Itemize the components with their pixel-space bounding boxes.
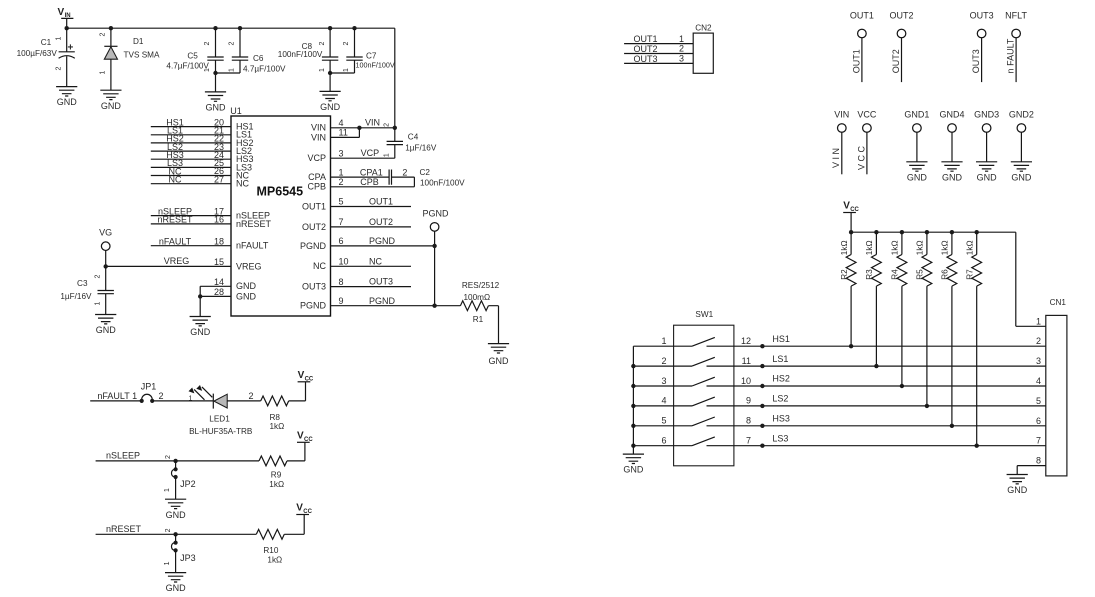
switch SW1 pole 3 bbox=[674, 377, 734, 386]
svg-text:OUT3: OUT3 bbox=[369, 277, 393, 287]
svg-text:V C C: V C C bbox=[856, 146, 866, 171]
wire C1 leads bbox=[66, 28, 68, 86]
svg-text:8: 8 bbox=[1036, 456, 1041, 466]
junction LS2 bbox=[760, 404, 764, 408]
svg-text:OUT3: OUT3 bbox=[302, 282, 326, 292]
svg-text:2: 2 bbox=[229, 41, 236, 45]
test point GND3 bbox=[982, 124, 991, 133]
svg-text:GND1: GND1 bbox=[904, 109, 929, 119]
switch SW1 pole 5 bbox=[674, 417, 734, 426]
capacitor C8 100nF/100V bbox=[322, 57, 338, 60]
svg-text:nFAULT 1: nFAULT 1 bbox=[97, 391, 137, 401]
svg-text:1µF/16V: 1µF/16V bbox=[405, 144, 437, 153]
svg-text:GND3: GND3 bbox=[974, 109, 999, 119]
wire net HS1 pin 20 bbox=[151, 126, 231, 128]
ground GND (C1) bbox=[56, 87, 77, 108]
svg-text:6: 6 bbox=[661, 436, 666, 446]
svg-text:+: + bbox=[68, 43, 74, 54]
svg-text:1µF/16V: 1µF/16V bbox=[60, 292, 92, 301]
svg-text:OUT1: OUT1 bbox=[850, 10, 874, 20]
wire R8 to VCC bbox=[289, 382, 306, 401]
svg-text:VCP: VCP bbox=[307, 153, 326, 163]
svg-text:VREG: VREG bbox=[164, 256, 190, 266]
svg-text:14: 14 bbox=[214, 277, 224, 287]
junction VCC bus R3 bbox=[874, 230, 878, 234]
svg-text:1: 1 bbox=[56, 36, 63, 40]
svg-text:PGND: PGND bbox=[300, 301, 327, 311]
svg-text:NFLT: NFLT bbox=[1005, 10, 1027, 20]
wire net OUT2 to CN2 pin 2 bbox=[624, 53, 693, 55]
svg-text:NC: NC bbox=[236, 179, 249, 189]
svg-text:100nF/100V: 100nF/100V bbox=[356, 61, 395, 70]
wire net LS3 SW1 to CN1 bbox=[734, 445, 1046, 447]
svg-text:PGND: PGND bbox=[369, 236, 396, 246]
svg-text:VCC: VCC bbox=[857, 109, 877, 119]
svg-text:MP6545: MP6545 bbox=[257, 185, 304, 199]
wire VCC bus to CN1 pin 1 bbox=[851, 232, 1046, 326]
svg-text:2: 2 bbox=[159, 391, 164, 401]
junction LS1 bbox=[760, 364, 764, 368]
junction HS1 bbox=[760, 344, 764, 348]
svg-text:11: 11 bbox=[339, 128, 348, 138]
svg-text:C7: C7 bbox=[366, 51, 377, 60]
svg-text:NC: NC bbox=[169, 175, 182, 185]
svg-text:OUT1: OUT1 bbox=[302, 201, 326, 211]
ground GND (C8) bbox=[320, 91, 341, 112]
svg-text:C6: C6 bbox=[253, 54, 264, 63]
ground GND (CN1) bbox=[1007, 475, 1028, 496]
wire net NC pin 26 bbox=[151, 175, 231, 177]
node VIN junction C1 bbox=[65, 26, 69, 30]
svg-text:1: 1 bbox=[383, 153, 390, 157]
svg-text:nRESET: nRESET bbox=[236, 219, 272, 229]
svg-text:NC: NC bbox=[369, 256, 382, 266]
power VCC (R10) bbox=[296, 503, 312, 516]
svg-text:GND: GND bbox=[1007, 485, 1028, 495]
connector CN1 bbox=[1046, 298, 1067, 476]
svg-text:12: 12 bbox=[741, 336, 751, 346]
test point OUT1 bbox=[858, 29, 867, 38]
capacitor C2 100nF/100V bbox=[389, 170, 391, 185]
switch SW1 pole 6 bbox=[674, 437, 734, 446]
test point GND4 bbox=[948, 124, 957, 133]
power VCC (R8) bbox=[298, 370, 314, 383]
svg-text:4: 4 bbox=[339, 118, 344, 128]
ground GND (GND4) bbox=[941, 162, 962, 183]
svg-text:5: 5 bbox=[661, 416, 666, 426]
svg-text:SW1: SW1 bbox=[695, 310, 713, 319]
svg-text:R5: R5 bbox=[916, 269, 925, 280]
svg-text:7: 7 bbox=[746, 436, 751, 446]
svg-text:GND: GND bbox=[166, 583, 187, 593]
svg-text:OUT1: OUT1 bbox=[369, 197, 393, 207]
jumper JP1 bbox=[140, 382, 157, 403]
U1 right side pin names bbox=[300, 123, 327, 311]
svg-text:16: 16 bbox=[214, 215, 224, 225]
wire test point OUT3 bbox=[981, 38, 983, 82]
svg-text:JP2: JP2 bbox=[180, 479, 196, 489]
capacitor C3 1uF/16V bbox=[98, 291, 114, 294]
wire net VCP pin 3 bbox=[331, 157, 395, 159]
test point VIN bbox=[838, 124, 847, 133]
wire VIN top bus bbox=[67, 28, 395, 128]
svg-text:3: 3 bbox=[679, 54, 684, 64]
svg-text:LED1: LED1 bbox=[209, 415, 230, 424]
junction R7 row bbox=[975, 444, 979, 448]
svg-text:GND: GND bbox=[96, 325, 117, 335]
svg-text:RES/2512: RES/2512 bbox=[462, 281, 500, 290]
svg-text:8: 8 bbox=[339, 277, 344, 287]
wire GND pins 14/28 bbox=[200, 286, 231, 316]
junction R2 row bbox=[849, 344, 853, 348]
svg-text:n FAULT: n FAULT bbox=[1006, 38, 1016, 73]
resistor R1 100mOhm RES/2512 bbox=[460, 301, 488, 311]
svg-text:V: V bbox=[843, 201, 850, 212]
resistor R6 1kOhm bbox=[947, 255, 957, 287]
wire R3 to row bbox=[875, 286, 877, 366]
wire net NC pin 27 bbox=[151, 183, 231, 185]
svg-text:GND: GND bbox=[320, 102, 341, 112]
svg-text:1kΩ: 1kΩ bbox=[941, 240, 950, 255]
svg-text:OUT3: OUT3 bbox=[634, 54, 658, 64]
svg-text:1: 1 bbox=[319, 68, 326, 72]
svg-text:R4: R4 bbox=[891, 269, 900, 280]
svg-text:JP1: JP1 bbox=[141, 382, 157, 392]
svg-text:2: 2 bbox=[1036, 336, 1041, 346]
junction VCC bus R6 bbox=[950, 230, 954, 234]
ground GND (R1) bbox=[488, 344, 509, 367]
junction HS2 bbox=[760, 384, 764, 388]
svg-text:5: 5 bbox=[339, 197, 344, 207]
junction SW1 gnd bus row 3 bbox=[631, 384, 635, 388]
svg-text:1: 1 bbox=[164, 561, 171, 565]
svg-text:3: 3 bbox=[1036, 356, 1041, 366]
junction VCC bus R5 bbox=[925, 230, 929, 234]
junction HS3 bbox=[760, 424, 764, 428]
wire test point GND1 bbox=[916, 132, 918, 162]
svg-text:4.7µF/100V: 4.7µF/100V bbox=[243, 64, 286, 73]
wire net OUT1 to CN2 pin 1 bbox=[624, 43, 693, 45]
svg-text:CN2: CN2 bbox=[695, 24, 712, 33]
svg-text:3: 3 bbox=[661, 376, 666, 386]
svg-text:6: 6 bbox=[339, 236, 344, 246]
svg-text:nRESET: nRESET bbox=[157, 215, 193, 225]
wire net OUT3 to CN2 pin 3 bbox=[624, 62, 693, 64]
svg-text:9: 9 bbox=[339, 296, 344, 306]
wire test point GND4 bbox=[951, 132, 953, 162]
wire net OUT1 pin 5 bbox=[331, 206, 412, 208]
svg-text:2: 2 bbox=[56, 66, 63, 70]
wire test point NFLT bbox=[1015, 38, 1017, 82]
junction VCC bus R4 bbox=[900, 230, 904, 234]
svg-text:OUT3: OUT3 bbox=[970, 10, 994, 20]
wire R4 to row bbox=[901, 286, 903, 386]
svg-text:R8: R8 bbox=[270, 413, 281, 422]
wire R6 to row bbox=[951, 286, 953, 426]
svg-text:GND: GND bbox=[206, 103, 227, 113]
svg-text:GND: GND bbox=[977, 172, 998, 182]
svg-text:OUT2: OUT2 bbox=[302, 222, 326, 232]
svg-text:OUT2: OUT2 bbox=[634, 44, 658, 54]
wire C7 leads bbox=[330, 28, 354, 73]
svg-text:8: 8 bbox=[746, 416, 751, 426]
wire test point GND2 bbox=[1020, 132, 1022, 162]
svg-text:R10: R10 bbox=[263, 546, 278, 555]
wire net VIN pin 11 bbox=[331, 128, 360, 138]
svg-text:nSLEEP: nSLEEP bbox=[106, 451, 140, 461]
svg-text:2: 2 bbox=[165, 528, 172, 532]
node VIN junction C5 bbox=[213, 26, 217, 30]
svg-text:D1: D1 bbox=[133, 37, 144, 46]
wire LED1 to R8 bbox=[227, 400, 261, 402]
svg-text:1kΩ: 1kΩ bbox=[966, 240, 975, 255]
wire R9 to VCC bbox=[287, 442, 305, 461]
junction VREG C3 bbox=[104, 264, 108, 268]
wire net LS3 pin 25 bbox=[151, 166, 231, 168]
svg-text:JP3: JP3 bbox=[180, 553, 196, 563]
test point VG bbox=[101, 242, 110, 251]
ground GND (C3) bbox=[95, 315, 116, 336]
resistor R5 1kOhm bbox=[922, 255, 932, 287]
wire net VIN pin 4 bbox=[331, 127, 395, 129]
svg-text:GND: GND bbox=[101, 101, 122, 111]
junction SW1 gnd bus row 6 bbox=[631, 444, 635, 448]
svg-text:GND: GND bbox=[1011, 172, 1032, 182]
svg-text:2: 2 bbox=[383, 123, 390, 127]
svg-text:2: 2 bbox=[319, 41, 326, 45]
switch SW1 pole 2 bbox=[674, 357, 734, 366]
wire VCC feed bbox=[850, 213, 852, 233]
junction SW1 gnd bus row 5 bbox=[631, 424, 635, 428]
svg-text:2: 2 bbox=[661, 356, 666, 366]
wire C3 leads bbox=[105, 266, 107, 314]
wire net nRESET pin 16 bbox=[151, 223, 231, 225]
connector CN2 bbox=[693, 24, 713, 74]
svg-text:GND: GND bbox=[623, 465, 644, 475]
wire net LS1 pin 21 bbox=[151, 134, 231, 136]
wire VCC to R4 bbox=[901, 232, 903, 254]
svg-text:C5: C5 bbox=[187, 52, 198, 61]
wire net OUT3 pin 8 bbox=[331, 286, 412, 288]
wire CN1 pin 8 to GND bbox=[1017, 466, 1046, 475]
wire R7 to row bbox=[976, 286, 978, 446]
wire net nSLEEP pin 17 bbox=[151, 215, 231, 217]
svg-text:100nF/100V: 100nF/100V bbox=[420, 178, 465, 187]
wire net LS1 SW1 to CN1 bbox=[734, 365, 1046, 367]
svg-text:PGND: PGND bbox=[300, 241, 327, 251]
svg-text:1kΩ: 1kΩ bbox=[891, 240, 900, 255]
capacitor C1 100uF/63V bbox=[17, 38, 75, 58]
wire net PGND pin 6 bbox=[331, 245, 435, 247]
svg-text:1: 1 bbox=[343, 68, 350, 72]
junction VCC bus R7 bbox=[975, 230, 979, 234]
svg-text:GND: GND bbox=[907, 172, 928, 182]
junction GND pins bbox=[198, 294, 202, 298]
ground GND (GND1) bbox=[906, 162, 927, 183]
junction R4 row bbox=[900, 384, 904, 388]
jumper JP2 bbox=[171, 461, 195, 499]
wire PGND test point to PGND net bbox=[434, 231, 436, 306]
svg-text:1: 1 bbox=[204, 68, 211, 72]
node VIN junction C7 bbox=[352, 26, 356, 30]
test point OUT3 bbox=[977, 29, 986, 38]
svg-text:V I N: V I N bbox=[831, 148, 841, 168]
svg-text:GND: GND bbox=[489, 356, 510, 366]
svg-text:7: 7 bbox=[339, 217, 344, 227]
capacitor C6 4.7uF/100V bbox=[232, 57, 248, 60]
svg-text:1: 1 bbox=[94, 301, 101, 305]
wire net LS2 SW1 to CN1 bbox=[734, 405, 1046, 407]
power V_IN terminal bbox=[58, 7, 74, 28]
wire net HS3 SW1 to CN1 bbox=[734, 425, 1046, 427]
wire net nFAULT pin 18 bbox=[151, 245, 231, 247]
wire test point GND3 bbox=[986, 132, 988, 162]
svg-text:NC: NC bbox=[313, 261, 326, 271]
svg-text:1: 1 bbox=[189, 395, 193, 402]
wire net LS2 pin 23 bbox=[151, 150, 231, 152]
svg-text:1kΩ: 1kΩ bbox=[916, 240, 925, 255]
wire C6 leads bbox=[216, 28, 241, 73]
svg-text:2: 2 bbox=[339, 177, 344, 187]
resistor R7 1kOhm bbox=[972, 255, 982, 287]
svg-text:VIN: VIN bbox=[834, 109, 849, 119]
wire VCC to R2 bbox=[850, 232, 852, 254]
svg-text:C4: C4 bbox=[408, 132, 419, 141]
svg-text:100nF/100V: 100nF/100V bbox=[278, 50, 323, 59]
svg-text:GND: GND bbox=[57, 97, 78, 107]
junction VCC bus R2 bbox=[849, 230, 853, 234]
svg-text:18: 18 bbox=[214, 236, 224, 246]
ground GND (SW1) bbox=[623, 454, 644, 475]
ground GND (U1) bbox=[190, 317, 211, 338]
svg-text:R6: R6 bbox=[941, 269, 950, 280]
svg-text:1: 1 bbox=[661, 336, 666, 346]
test point OUT2 bbox=[897, 29, 906, 38]
wire net NC pin 10 bbox=[331, 265, 412, 267]
svg-text:R2: R2 bbox=[840, 269, 849, 280]
wire C8 leads bbox=[329, 28, 331, 91]
svg-text:GND: GND bbox=[942, 172, 963, 182]
resistor R10 1kOhm bbox=[256, 529, 284, 539]
svg-text:2: 2 bbox=[94, 274, 101, 278]
ground GND (GND3) bbox=[976, 162, 997, 183]
wire test point VCC bbox=[866, 132, 868, 174]
wire SW1 pin 4 stub bbox=[633, 405, 673, 407]
wire SW1 ground bus bbox=[632, 346, 634, 454]
resistor R9 1kOhm bbox=[259, 456, 287, 466]
svg-text:1kΩ: 1kΩ bbox=[270, 422, 285, 431]
svg-text:1: 1 bbox=[679, 34, 684, 44]
node VIN junction D1 bbox=[109, 26, 113, 30]
wire SW1 pin 1 stub bbox=[633, 345, 673, 347]
ground GND (D1) bbox=[100, 90, 121, 111]
wire D1 leads bbox=[110, 28, 112, 90]
switch SW1 pole 4 bbox=[674, 397, 734, 406]
svg-text:1: 1 bbox=[339, 167, 344, 177]
svg-text:CPA: CPA bbox=[308, 172, 326, 182]
svg-text:VREG: VREG bbox=[236, 261, 262, 271]
svg-text:1: 1 bbox=[164, 488, 171, 492]
svg-text:GND: GND bbox=[236, 291, 257, 301]
svg-text:2: 2 bbox=[402, 167, 407, 177]
svg-text:3: 3 bbox=[339, 148, 344, 158]
svg-text:R3: R3 bbox=[865, 269, 874, 280]
wire VCC to R5 bbox=[926, 232, 928, 254]
test point PGND bbox=[430, 223, 439, 232]
svg-text:2: 2 bbox=[249, 391, 254, 401]
svg-text:VG: VG bbox=[99, 227, 112, 237]
svg-text:4: 4 bbox=[1036, 376, 1041, 386]
resistor R8 1kOhm bbox=[261, 396, 289, 406]
ground GND (GND2) bbox=[1011, 162, 1032, 183]
test point GND1 bbox=[913, 124, 922, 133]
svg-text:1kΩ: 1kΩ bbox=[269, 480, 284, 489]
svg-text:VIN: VIN bbox=[311, 123, 326, 133]
test point NFLT bbox=[1012, 29, 1021, 38]
wire net nSLEEP bbox=[96, 460, 259, 462]
junction PGND pin9 bbox=[432, 304, 436, 308]
svg-text:100µF/63V: 100µF/63V bbox=[17, 49, 58, 58]
svg-text:2: 2 bbox=[204, 41, 211, 45]
svg-text:GND: GND bbox=[166, 510, 187, 520]
junction VIN C4 bbox=[393, 126, 397, 130]
resistor R3 1kOhm bbox=[872, 255, 882, 287]
svg-text:10: 10 bbox=[741, 376, 751, 386]
junction PGND pin6 bbox=[432, 244, 436, 248]
svg-text:R1: R1 bbox=[473, 315, 484, 324]
svg-text:7: 7 bbox=[1036, 436, 1041, 446]
wire SW1 pin 5 stub bbox=[633, 425, 673, 427]
wire R10 to VCC bbox=[284, 515, 304, 535]
power VCC (pull-up bank) bbox=[843, 201, 859, 214]
resistor R4 1kOhm bbox=[897, 255, 907, 287]
junction LS3 bbox=[760, 444, 764, 448]
test point GND2 bbox=[1017, 124, 1026, 133]
ground GND (JP3) bbox=[165, 573, 186, 594]
svg-text:1: 1 bbox=[100, 70, 107, 74]
svg-text:HS2: HS2 bbox=[772, 374, 790, 384]
junction R6 row bbox=[950, 424, 954, 428]
svg-text:2: 2 bbox=[100, 32, 107, 36]
svg-text:VIN: VIN bbox=[365, 118, 380, 128]
junction R3 row bbox=[874, 364, 878, 368]
op-amp U1 MP6545 (driver IC) bbox=[230, 106, 330, 316]
svg-text:LS3: LS3 bbox=[772, 433, 788, 443]
wire VG to VREG bbox=[105, 251, 107, 267]
node VIN junction C8 bbox=[328, 26, 332, 30]
power VCC (R9) bbox=[297, 431, 313, 444]
wire test point OUT2 bbox=[901, 38, 903, 82]
svg-text:6: 6 bbox=[1036, 416, 1041, 426]
svg-text:CPA1: CPA1 bbox=[360, 167, 383, 177]
svg-text:R9: R9 bbox=[271, 470, 282, 479]
svg-text:CPB: CPB bbox=[307, 182, 326, 192]
wire net PGND pin 9 bbox=[331, 305, 461, 307]
wire JP1 to LED1 bbox=[152, 400, 213, 402]
svg-text:1kΩ: 1kΩ bbox=[865, 240, 874, 255]
svg-text:GND2: GND2 bbox=[1009, 109, 1034, 119]
svg-text:28: 28 bbox=[214, 287, 224, 297]
svg-text:BL-HUF35A-TRB: BL-HUF35A-TRB bbox=[189, 427, 253, 436]
wire net nRESET bbox=[96, 533, 257, 535]
svg-text:C2: C2 bbox=[420, 168, 431, 177]
junction C8-C7 bbox=[328, 71, 332, 75]
svg-text:2: 2 bbox=[679, 44, 684, 54]
svg-text:4: 4 bbox=[661, 396, 666, 406]
ground GND (C5) bbox=[205, 92, 226, 113]
svg-text:V: V bbox=[297, 431, 304, 442]
svg-text:27: 27 bbox=[214, 174, 224, 184]
